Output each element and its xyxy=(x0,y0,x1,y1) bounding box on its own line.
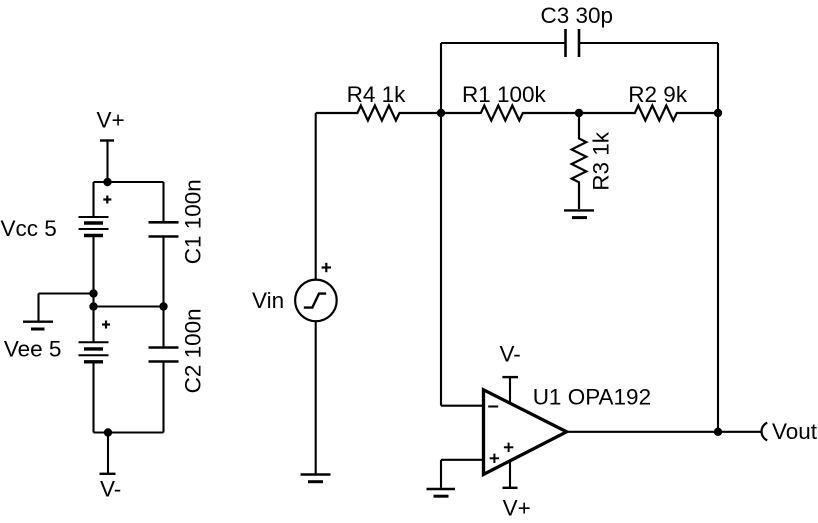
svg-text:R3 1k: R3 1k xyxy=(589,131,614,191)
svg-text:V-: V- xyxy=(100,477,121,502)
svg-text:R2 9k: R2 9k xyxy=(628,82,688,107)
svg-text:Vcc 5: Vcc 5 xyxy=(1,216,57,241)
svg-text:R4 1k: R4 1k xyxy=(347,82,407,107)
svg-text:Vee 5: Vee 5 xyxy=(4,337,62,362)
svg-text:Vin: Vin xyxy=(252,288,284,313)
svg-text:U1 OPA192: U1 OPA192 xyxy=(533,384,651,409)
svg-text:R1 100k: R1 100k xyxy=(462,82,547,107)
svg-text:C3 30p: C3 30p xyxy=(541,3,614,28)
svg-text:C2 100n: C2 100n xyxy=(181,308,206,393)
svg-text:C1 100n: C1 100n xyxy=(181,179,206,264)
svg-text:V+: V+ xyxy=(97,107,125,132)
svg-text:Vout: Vout xyxy=(772,419,818,444)
svg-text:V-: V- xyxy=(500,342,521,367)
svg-text:V+: V+ xyxy=(503,496,531,521)
